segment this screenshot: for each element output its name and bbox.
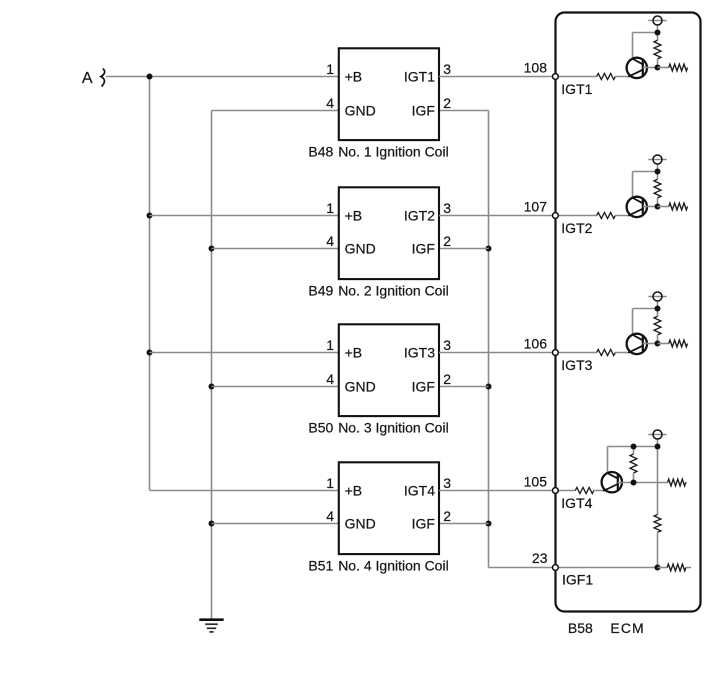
wire: node A to coil1 +B pin bbox=[106, 76, 339, 78]
ECM pin 23 connector bbox=[553, 565, 559, 571]
junction IGF coil2 bbox=[486, 246, 492, 252]
junction collector resistor top IGT2 bbox=[655, 169, 661, 175]
connector squiggle at node A bbox=[101, 69, 105, 86]
svg-text:2: 2 bbox=[443, 95, 451, 111]
svg-text:IGF: IGF bbox=[412, 379, 435, 395]
junction base resistor top IGT4 bbox=[631, 444, 637, 450]
svg-text:IGT4: IGT4 bbox=[561, 495, 592, 511]
svg-text:1: 1 bbox=[326, 337, 334, 353]
svg-text:A: A bbox=[82, 70, 93, 87]
wire: coil3 IGF pin2 to IGF rail bbox=[439, 386, 489, 388]
svg-text:No. 2 Ignition Coil: No. 2 Ignition Coil bbox=[338, 283, 449, 299]
ECM pin 106 connector bbox=[553, 350, 559, 356]
ECM B58 box bbox=[556, 13, 701, 612]
svg-text:IGT2: IGT2 bbox=[404, 208, 435, 224]
svg-text:4: 4 bbox=[326, 508, 334, 524]
ECM driver circuit for IGT1 bbox=[558, 24, 661, 79]
svg-text:105: 105 bbox=[524, 474, 548, 490]
power terminal of IGT1 driver bbox=[648, 16, 666, 25]
IGF rail vertical wire bbox=[488, 111, 490, 568]
wire: coil1 IGF pin2 to IGF rail bbox=[439, 110, 489, 112]
coil B48 name label bbox=[308, 144, 448, 160]
wire: coil B48 IGT pin3 to ECM bbox=[439, 76, 553, 78]
ECM driver circuit for IGT3 bbox=[558, 300, 661, 355]
ECM driver circuit for IGT4 bbox=[558, 439, 661, 568]
svg-text:2: 2 bbox=[443, 233, 451, 249]
transistor of IGT4 driver bbox=[602, 472, 622, 492]
svg-text:IGF1: IGF1 bbox=[562, 572, 593, 588]
wire: +B rail to coil3 pin1 bbox=[150, 352, 339, 354]
ignition coil B51 box bbox=[339, 462, 439, 554]
ignition coil B50 box bbox=[339, 324, 439, 416]
svg-text:2: 2 bbox=[443, 371, 451, 387]
+B rail vertical wire bbox=[149, 77, 151, 491]
svg-text:No. 1 Ignition Coil: No. 1 Ignition Coil bbox=[338, 144, 449, 160]
ECM pin 105 connector bbox=[553, 488, 559, 494]
ECM driver circuit for IGT2 bbox=[558, 163, 661, 218]
svg-text:1: 1 bbox=[326, 475, 334, 491]
svg-text:107: 107 bbox=[524, 199, 548, 215]
resistor to right of base node IGT1 bbox=[658, 64, 688, 71]
base lead wire IGT4 bbox=[618, 482, 668, 484]
ECM name label bbox=[568, 620, 645, 636]
power terminal of IGT3 driver bbox=[648, 292, 666, 301]
transistor of IGT2 driver bbox=[627, 197, 647, 217]
wire: IGF rail to ECM pin 23 bbox=[489, 567, 553, 569]
svg-text:No. 4 Ignition Coil: No. 4 Ignition Coil bbox=[338, 558, 449, 574]
svg-text:IGT4: IGT4 bbox=[404, 483, 435, 499]
svg-text:B48: B48 bbox=[308, 144, 333, 160]
svg-text:4: 4 bbox=[326, 233, 334, 249]
ignition coil B48 box bbox=[339, 48, 439, 140]
ground rail vertical wire bbox=[211, 111, 213, 619]
junction base node IGT4 bbox=[631, 480, 637, 486]
svg-text:No. 3 Ignition Coil: No. 3 Ignition Coil bbox=[338, 420, 449, 436]
wire: +B rail to coil2 pin1 bbox=[150, 215, 339, 217]
svg-text:IGT2: IGT2 bbox=[561, 220, 592, 236]
junction IGF1 node bbox=[655, 565, 661, 571]
junction collector resistor top IGT1 bbox=[655, 30, 661, 36]
power terminal of IGT2 driver bbox=[648, 155, 666, 164]
svg-text:B49: B49 bbox=[308, 283, 333, 299]
svg-text:3: 3 bbox=[443, 337, 451, 353]
junction collector resistor top IGT3 bbox=[655, 306, 661, 312]
resistor to right of base node IGT3 bbox=[658, 340, 688, 347]
wire: coil2 IGF pin2 to IGF rail bbox=[439, 248, 489, 250]
resistor right of IGF1 node bbox=[658, 564, 692, 571]
junction GND coil4 bbox=[209, 521, 215, 527]
svg-text:GND: GND bbox=[345, 103, 376, 119]
wire: ground rail to coil1 pin4 bbox=[212, 110, 339, 112]
ground symbol bbox=[199, 620, 223, 632]
base lead wire IGT2 bbox=[643, 206, 658, 208]
svg-text:4: 4 bbox=[326, 95, 334, 111]
svg-text:ECM: ECM bbox=[610, 620, 644, 636]
svg-text:IGT3: IGT3 bbox=[404, 345, 435, 361]
base lead wire IGT3 bbox=[643, 343, 658, 345]
svg-text:IGF: IGF bbox=[412, 516, 435, 532]
coil B51 name label bbox=[308, 558, 448, 574]
wire: ground rail to coil4 pin4 bbox=[212, 523, 339, 525]
resistor right of IGT4 base line bbox=[668, 479, 687, 486]
wire: coil4 IGF pin2 to IGF rail bbox=[439, 523, 489, 525]
ECM pin 108 connector bbox=[553, 74, 559, 80]
transistor of IGT1 driver bbox=[627, 58, 647, 78]
base lead wire IGT1 bbox=[643, 67, 658, 69]
svg-text:3: 3 bbox=[443, 61, 451, 77]
svg-text:+B: +B bbox=[345, 345, 363, 361]
junction IGF coil3 bbox=[486, 384, 492, 390]
ECM pin 107 connector bbox=[553, 213, 559, 219]
wire: coil B49 IGT pin3 to ECM bbox=[439, 215, 553, 217]
junction base node IGT1 bbox=[655, 65, 661, 71]
svg-text:IGF: IGF bbox=[412, 241, 435, 257]
svg-text:108: 108 bbox=[524, 60, 548, 76]
power terminal of IGT4 driver bbox=[648, 430, 666, 439]
svg-text:IGF: IGF bbox=[412, 103, 435, 119]
wire: ground rail to coil3 pin4 bbox=[212, 386, 339, 388]
svg-text:IGT1: IGT1 bbox=[404, 69, 435, 85]
svg-text:3: 3 bbox=[443, 475, 451, 491]
svg-text:23: 23 bbox=[532, 550, 548, 566]
junction GND coil3 bbox=[209, 384, 215, 390]
junction +B coil3 bbox=[147, 350, 153, 356]
junction +B coil2 bbox=[147, 213, 153, 219]
svg-text:106: 106 bbox=[524, 336, 548, 352]
svg-text:2: 2 bbox=[443, 508, 451, 524]
svg-text:B51: B51 bbox=[308, 558, 333, 574]
wire: coil B50 IGT pin3 to ECM bbox=[439, 352, 553, 354]
svg-text:3: 3 bbox=[443, 200, 451, 216]
svg-text:IGT1: IGT1 bbox=[561, 81, 592, 97]
svg-text:+B: +B bbox=[345, 69, 363, 85]
svg-text:IGT3: IGT3 bbox=[561, 357, 592, 373]
junction base node IGT3 bbox=[655, 341, 661, 347]
junction GND coil2 bbox=[209, 246, 215, 252]
svg-text:GND: GND bbox=[345, 516, 376, 532]
svg-text:+B: +B bbox=[345, 208, 363, 224]
wire: +B rail to coil4 pin1 bbox=[150, 490, 339, 492]
junction node A rail bbox=[147, 74, 153, 80]
junction base node IGT2 bbox=[655, 204, 661, 210]
junction IGF coil4 bbox=[486, 521, 492, 527]
wire: ECM pin 23 IGF1 line bbox=[558, 567, 658, 569]
svg-text:GND: GND bbox=[345, 379, 376, 395]
svg-text:B58: B58 bbox=[568, 620, 593, 636]
svg-text:GND: GND bbox=[345, 241, 376, 257]
ignition coil B49 box bbox=[339, 187, 439, 279]
wire: coil B51 IGT pin3 to ECM bbox=[439, 490, 553, 492]
resistor to right of base node IGT2 bbox=[658, 203, 688, 210]
coil B50 name label bbox=[308, 420, 448, 436]
svg-text:1: 1 bbox=[326, 61, 334, 77]
transistor of IGT3 driver bbox=[627, 334, 647, 354]
svg-text:4: 4 bbox=[326, 371, 334, 387]
junction top node IGT4 bbox=[655, 444, 661, 450]
coil B49 name label bbox=[308, 283, 448, 299]
wire: ground rail to coil2 pin4 bbox=[212, 248, 339, 250]
svg-text:B50: B50 bbox=[308, 420, 333, 436]
svg-text:+B: +B bbox=[345, 483, 363, 499]
svg-text:1: 1 bbox=[326, 200, 334, 216]
